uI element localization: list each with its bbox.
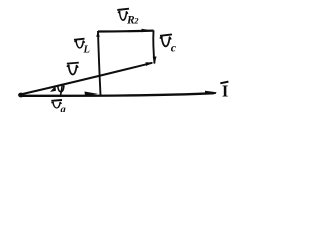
label U_C bbox=[160, 34, 177, 54]
svg-text:2: 2 bbox=[133, 16, 139, 26]
vector U_L (left vertical, arrow up) bbox=[96, 31, 100, 95]
angle arc arrowhead bbox=[50, 86, 56, 92]
vector U_C (right vertical, arrow down) bbox=[153, 30, 157, 64]
vector U_a arrowhead bbox=[85, 92, 99, 97]
label U_R2 bbox=[117, 9, 139, 27]
svg-text:c: c bbox=[171, 40, 177, 54]
label I (current) bbox=[220, 81, 228, 100]
svg-text:I: I bbox=[222, 81, 228, 100]
vector U_R2 (top horizontal, arrow right) bbox=[98, 29, 154, 33]
origin node O bbox=[18, 93, 24, 98]
vector U (diagonal) bbox=[21, 62, 153, 94]
label U_L bbox=[74, 39, 90, 56]
axis I (horizontal current axis) bbox=[21, 91, 217, 96]
svg-text:L: L bbox=[83, 45, 90, 56]
label U_a bbox=[51, 100, 65, 116]
label U (main vector) bbox=[67, 63, 79, 75]
angle phi label bbox=[58, 84, 64, 97]
svg-text:a: a bbox=[61, 105, 66, 113]
